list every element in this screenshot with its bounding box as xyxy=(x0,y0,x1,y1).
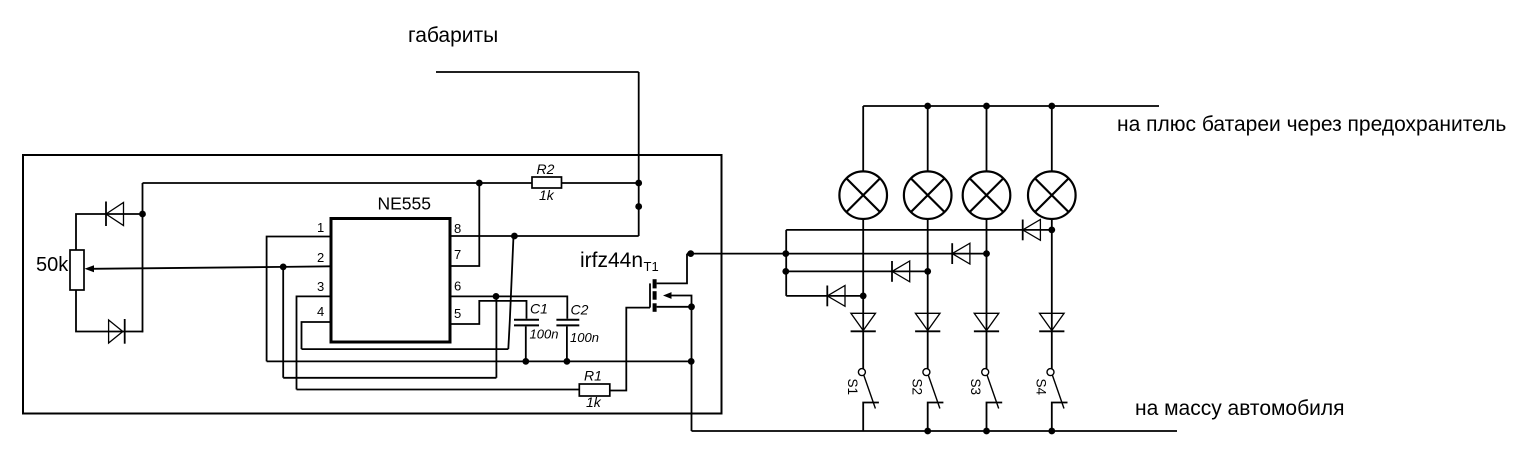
wire row A xyxy=(786,229,1052,231)
diode VD9 (column 3, cathode down) xyxy=(974,313,999,330)
diode VD6 (row D, cathode left) xyxy=(826,286,828,307)
diode VD10 (column 4, cathode down) xyxy=(1040,313,1065,330)
svg-text:50k: 50k xyxy=(36,254,69,276)
diode VD3 (row A, cathode left) xyxy=(1022,220,1024,241)
wire row D xyxy=(786,295,863,297)
potentiometer 50k xyxy=(70,250,84,290)
wire wiper to pin 2 xyxy=(92,266,331,269)
diode VD7 (column 1, cathode down) xyxy=(851,313,876,330)
wire C2 bottom lead xyxy=(566,326,568,361)
svg-text:S1: S1 xyxy=(845,379,860,396)
wire top plus bus xyxy=(863,105,1159,107)
transistor T1 gate line xyxy=(649,283,651,307)
svg-text:100n: 100n xyxy=(530,327,559,342)
svg-text:габариты: габариты xyxy=(408,24,498,47)
node R2 right junction xyxy=(635,180,642,187)
svg-text:1k: 1k xyxy=(586,394,602,410)
wire R1 to gate xyxy=(610,308,650,391)
enclosure box xyxy=(23,155,722,414)
svg-text:T1: T1 xyxy=(644,259,659,274)
wire pot top lead xyxy=(76,214,106,250)
svg-text:на плюс батареи через предохра: на плюс батареи через предохранитель xyxy=(1117,113,1506,136)
svg-text:на массу автомобиля: на массу автомобиля xyxy=(1135,397,1345,420)
switch S3 xyxy=(982,369,989,376)
capacitor C1 xyxy=(514,319,539,321)
diode VD1 (top, cathode left) xyxy=(105,202,107,227)
wire pot bottom lead xyxy=(76,290,143,332)
svg-text:2: 2 xyxy=(317,250,324,265)
diode VD2 (bottom, cathode right) xyxy=(109,320,123,343)
wire pin8 to pin4 slanted link xyxy=(508,236,513,349)
node lamp3 row B junction xyxy=(983,250,990,257)
svg-text:100n: 100n xyxy=(570,330,599,345)
node pin6 junction xyxy=(493,293,500,300)
svg-text:NE555: NE555 xyxy=(378,194,432,214)
node C1 ground junction xyxy=(522,358,529,365)
svg-text:C2: C2 xyxy=(571,302,589,318)
lamp L4 xyxy=(1051,106,1053,171)
wire габариты horizontal xyxy=(436,71,639,73)
lamp L2 xyxy=(927,106,929,171)
wire left vertical branch xyxy=(142,183,145,332)
switch S1 xyxy=(858,369,865,376)
wire row C xyxy=(786,270,928,272)
node bus lamp4 xyxy=(1048,103,1055,110)
node pin7 top junction xyxy=(476,180,483,187)
node diode-ladder C xyxy=(782,268,789,275)
wire C1 bottom lead xyxy=(525,326,527,361)
node C2 ground junction xyxy=(564,358,571,365)
node bus lamp3 xyxy=(983,103,990,110)
node lamp4 row A junction xyxy=(1048,227,1055,234)
node on feed line xyxy=(635,203,642,210)
wire diode VD1 to node xyxy=(106,213,143,215)
svg-text:7: 7 xyxy=(454,247,461,262)
svg-text:1: 1 xyxy=(317,220,324,235)
node ground S2 xyxy=(924,428,931,435)
svg-text:5: 5 xyxy=(454,306,461,321)
svg-text:S3: S3 xyxy=(968,379,983,396)
svg-text:6: 6 xyxy=(454,279,461,294)
svg-text:R1: R1 xyxy=(584,368,602,384)
wire pin4 bottom run xyxy=(302,348,509,350)
lamp L3 xyxy=(986,106,988,171)
transistor T1 drain lead xyxy=(657,254,687,284)
svg-text:4: 4 xyxy=(317,304,324,319)
node pin8 junction xyxy=(511,233,518,240)
svg-text:8: 8 xyxy=(454,221,461,236)
svg-text:C1: C1 xyxy=(530,301,548,317)
transistor T1 body arrow xyxy=(663,292,672,299)
diode VD5 (row C, cathode left) xyxy=(891,261,893,282)
transistor T1 source lead xyxy=(657,306,692,308)
wire source down to ground bus xyxy=(691,307,693,431)
wire pin 2 down branch xyxy=(282,267,284,378)
wire diode ladder left vertical xyxy=(785,230,787,296)
wire top feed to R2 xyxy=(143,182,533,184)
switch S2 xyxy=(923,369,930,376)
IC U1 NE555 body xyxy=(331,219,450,343)
node source-ground junction xyxy=(688,358,695,365)
wire drain bus to lamps xyxy=(687,253,987,255)
capacitor C2 xyxy=(556,319,579,321)
node ground S3 xyxy=(983,428,990,435)
node source junction xyxy=(688,303,695,310)
node bus lamp2 xyxy=(924,103,931,110)
wire габариты vertical drop xyxy=(638,72,640,236)
resistor R2 xyxy=(532,177,562,188)
node pin2 junction xyxy=(280,264,287,271)
svg-text:1k: 1k xyxy=(539,187,555,203)
wire ground run (pin1) xyxy=(267,360,691,362)
wiper arrow of potentiometer xyxy=(85,265,95,272)
svg-text:irfz44n: irfz44n xyxy=(580,249,643,272)
node ground S4 xyxy=(1048,428,1055,435)
svg-text:3: 3 xyxy=(317,279,324,294)
svg-text:S2: S2 xyxy=(909,379,924,396)
diode VD8 (column 2, cathode down) xyxy=(915,313,940,330)
wire pin3 bottom run xyxy=(297,389,580,391)
svg-text:S4: S4 xyxy=(1034,379,1049,396)
wire ground bus xyxy=(692,430,1178,432)
wire pin6 down branch xyxy=(495,296,497,377)
node diode-ladder B xyxy=(782,250,789,257)
node drain corner xyxy=(687,250,694,257)
node lamp2 row C junction xyxy=(924,268,931,275)
wire pin2 bottom run xyxy=(283,377,496,379)
node lamp1 row D junction xyxy=(860,293,867,300)
node junction A xyxy=(139,211,146,218)
lamp L1 xyxy=(862,106,864,171)
transistor T1 channel bars xyxy=(653,279,657,288)
resistor R1 xyxy=(579,384,610,396)
svg-text:R2: R2 xyxy=(537,161,555,177)
switch S4 xyxy=(1047,369,1054,376)
wire R2 right lead xyxy=(562,182,639,184)
diode VD4 (row B, cathode left) xyxy=(951,243,953,264)
transistor T1 body lead xyxy=(671,296,692,307)
